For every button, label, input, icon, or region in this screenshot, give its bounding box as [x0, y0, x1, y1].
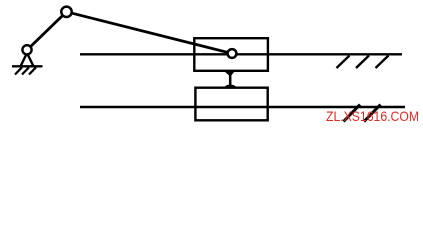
rigid connector bar: [229, 71, 232, 88]
fixed pivot ground hatching: [15, 67, 36, 74]
fixed pivot ground line: [12, 65, 43, 67]
crank link (pivot to joint B): [27, 12, 67, 50]
svg-text:ZL.XS1616.COM: ZL.XS1616.COM: [326, 108, 419, 124]
lower rail hatching: [344, 105, 381, 122]
upper guide rail: [80, 53, 402, 55]
fixed pivot support triangle: [21, 53, 34, 66]
upper rail hatching: [337, 56, 389, 69]
upper slider block: [194, 38, 268, 71]
rigid connector bottom flare: [224, 84, 236, 87]
revolute joint B circle: [61, 7, 71, 17]
coupler link (joint B to pin C): [67, 12, 233, 54]
lower slider block: [195, 88, 267, 121]
rigid connector top flare: [224, 71, 235, 76]
fixed pivot joint circle: [22, 45, 31, 54]
lower guide rail: [80, 106, 405, 108]
pin joint C circle: [228, 49, 237, 58]
